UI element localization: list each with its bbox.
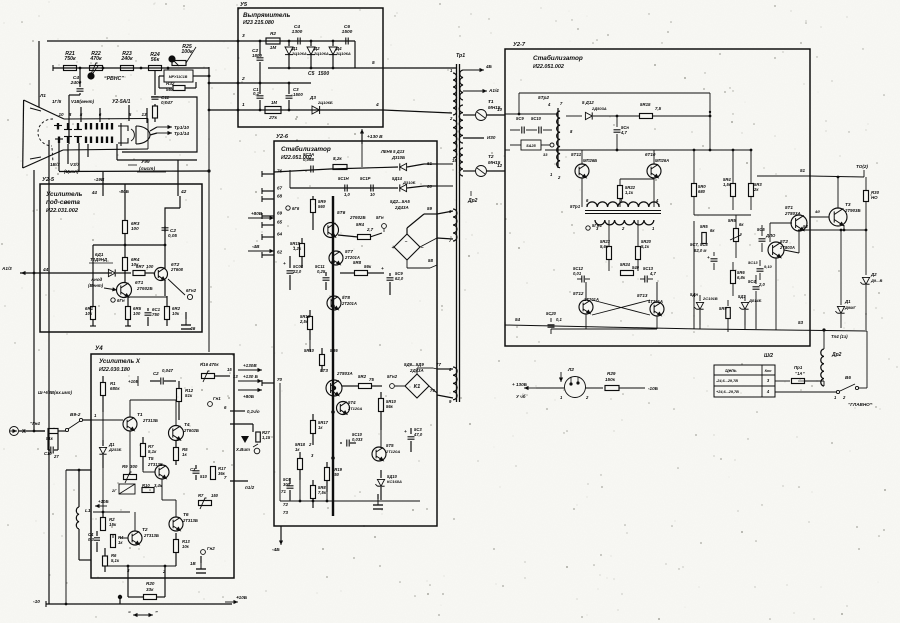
svg-text:И22.030.180: И22.030.180 <box>99 367 130 373</box>
resistor 5R2 75 <box>359 384 372 389</box>
U2-6 bottom wires <box>280 500 420 502</box>
svg-text:750: 750 <box>332 472 340 477</box>
svg-text:+130В: +130В <box>243 363 257 368</box>
svg-text:-4В: -4В <box>252 244 260 249</box>
transformer Tr1 core <box>456 64 458 402</box>
svg-text:L1: L1 <box>85 508 91 514</box>
svg-text:R9: R9 <box>122 464 128 469</box>
svg-text:КС168А: КС168А <box>387 479 402 484</box>
lamp L2 <box>565 377 586 398</box>
pin Gn2 <box>201 550 206 555</box>
svg-text:-19В: -19В <box>94 177 105 183</box>
transistor 5T3 2T803A <box>326 380 342 396</box>
resistor 5R4 2.7 <box>358 235 371 240</box>
svg-text:2Т803А: 2Т803А <box>784 211 801 216</box>
svg-text:5Т8: 5Т8 <box>342 295 350 300</box>
pin 6Gn6 <box>286 206 290 210</box>
svg-text:В9-2: В9-2 <box>70 412 81 418</box>
svg-text:12: 12 <box>497 163 503 168</box>
wire winding3 taps <box>437 211 453 214</box>
svg-text:510: 510 <box>200 474 208 479</box>
wire y171 to stub 42 <box>59 170 209 173</box>
svg-text:3: 3 <box>242 33 245 39</box>
bus vertical x209 <box>208 67 210 110</box>
arrow Tr1/14 <box>157 132 172 134</box>
U4 wiring T1 column <box>102 412 104 440</box>
svg-text:К1: К1 <box>414 384 421 390</box>
svg-text:5Гн2: 5Гн2 <box>387 374 398 379</box>
U7 mid column vertical <box>693 221 695 329</box>
svg-text:5R4: 5R4 <box>356 222 365 227</box>
svg-text:1М: 1М <box>270 45 277 50</box>
pin 7 wire p1/2 <box>230 480 248 482</box>
svg-text:5Гн4: 5Гн4 <box>592 223 602 228</box>
svg-text:64: 64 <box>277 232 283 237</box>
svg-text:10к: 10к <box>182 544 190 549</box>
multivibrator bottom wire <box>585 314 587 329</box>
stub -19V <box>102 172 104 196</box>
svg-text:НО: НО <box>871 195 878 200</box>
svg-text:R10: R10 <box>142 483 150 488</box>
resistor 6R2 10k <box>166 296 168 306</box>
bottom resistors row <box>92 273 94 306</box>
svg-text:44: 44 <box>91 190 98 195</box>
svg-text:0,3: 0,3 <box>88 537 94 542</box>
wire 5R22 to mid <box>620 178 654 180</box>
resistor 5R15 7.5 <box>640 114 653 119</box>
svg-text:15: 15 <box>227 367 232 372</box>
U7 multivib collectors <box>585 282 587 300</box>
diode 5D12 <box>566 115 582 117</box>
resistor 6R7 100 <box>133 271 145 276</box>
resistor 5R6b <box>727 300 729 306</box>
stub 42 wire inside <box>179 196 181 208</box>
svg-text:5С7, 5С8: 5С7, 5С8 <box>690 242 708 247</box>
svg-text:Гн1: Гн1 <box>213 396 221 401</box>
U7 zener bottoms <box>699 310 701 329</box>
diode D2 <box>310 41 312 46</box>
svg-text:-10Б: -10Б <box>648 386 659 391</box>
capacitor C6 1500 <box>345 38 347 45</box>
resistor 5R16 <box>309 310 311 316</box>
transistor 5T2 2T803A <box>768 242 784 258</box>
svg-text:13: 13 <box>233 374 238 379</box>
transistor T1 2T313B <box>123 417 137 431</box>
svg-text:+10Б: +10Б <box>236 595 248 600</box>
cross coupling X <box>592 300 650 315</box>
svg-text:5Д14: 5Д14 <box>392 176 403 181</box>
svg-text:2Т120А: 2Т120А <box>385 449 400 454</box>
resistor 5R10 56k <box>380 392 382 398</box>
svg-text:2,7: 2,7 <box>366 227 374 232</box>
zener 5D10 KS168A <box>380 470 382 478</box>
svg-text:5А25: 5А25 <box>526 143 536 148</box>
pot knob R22 <box>87 72 94 79</box>
svg-text:0,047: 0,047 <box>161 100 173 105</box>
svg-text:МП26Б: МП26Б <box>583 158 597 163</box>
svg-text:240к: 240к <box>120 56 133 62</box>
svg-text:”: ” <box>155 611 158 617</box>
capacitor 5C5 <box>761 225 763 236</box>
transistor T3 2T903B <box>829 208 847 226</box>
svg-text:4Б: 4Б <box>485 64 493 69</box>
svg-text:+: + <box>404 430 407 435</box>
svg-text:5С1Р: 5С1Р <box>360 176 371 181</box>
module MRU11S1V <box>164 70 193 82</box>
svg-text:750: 750 <box>152 312 160 317</box>
resistor R20 33k <box>118 595 122 599</box>
svg-text:С3: С3 <box>190 467 196 472</box>
svg-text:Тр1/14: Тр1/14 <box>174 131 189 137</box>
svg-text:И23 215.080: И23 215.080 <box>243 20 274 26</box>
svg-text:7,5к: 7,5к <box>318 490 327 495</box>
svg-text:-4Б: -4Б <box>272 547 280 553</box>
svg-text:+: + <box>283 262 286 267</box>
svg-text:И22.031.002: И22.031.002 <box>46 208 79 214</box>
svg-text:Др2: Др2 <box>831 352 842 358</box>
svg-text:27: 27 <box>53 454 59 459</box>
svg-text:Л1: Л1 <box>39 93 46 99</box>
U4 wire L1 drop <box>65 470 67 604</box>
resistor small above 5T3 <box>320 355 325 366</box>
capacitor 5C12 0.01 <box>581 276 583 283</box>
svg-text:1В: 1В <box>190 561 196 566</box>
pot R9 300 <box>124 475 137 480</box>
wire TO2 top <box>810 176 864 177</box>
svg-text:под-света: под-света <box>46 198 80 206</box>
U7 bus y150 full <box>617 149 694 151</box>
svg-text:5: 5 <box>372 60 375 66</box>
wire bus to U5 pin2 <box>209 82 238 84</box>
wire bus to U5 pin1 <box>209 109 238 111</box>
svg-text:58: 58 <box>428 258 433 263</box>
resistor 5R9 560 <box>312 196 314 200</box>
svg-text:5Д2...5А5: 5Д2...5А5 <box>390 199 410 204</box>
svg-text:1500: 1500 <box>342 29 353 35</box>
svg-text:5R8: 5R8 <box>353 260 362 265</box>
svg-text:560: 560 <box>318 204 326 209</box>
capacitor 5C8 22.0 <box>289 256 291 268</box>
svg-text:2Т313Б: 2Т313Б <box>142 418 158 423</box>
U2-6 misc columns <box>380 430 382 448</box>
U4 wiring T1-T4 link <box>129 400 131 417</box>
capacitor 5C13 4.7 <box>644 276 646 283</box>
ground cap 46 <box>181 324 191 326</box>
svg-text:65: 65 <box>277 220 283 225</box>
svg-text:46: 46 <box>189 326 196 332</box>
svg-text:Тр1/10: Тр1/10 <box>174 125 189 131</box>
svg-text:+: + <box>391 245 394 251</box>
capacitor C2 1800 <box>259 41 261 56</box>
svg-text:Усилитель: Усилитель <box>46 191 83 198</box>
wire lamp T2 to U7 pin12 <box>487 170 505 172</box>
svg-text:Ш-Ч/ЗВ(вх.имп): Ш-Ч/ЗВ(вх.имп) <box>38 390 72 395</box>
bus x209 down <box>208 110 210 352</box>
pin 6Gn1 <box>111 298 115 302</box>
U7 pin 10 wire <box>505 113 558 115</box>
svg-text:-10: -10 <box>33 599 40 605</box>
capacitor C11 0.047 with resistor <box>154 71 156 95</box>
capacitor 5C12b 2.0 <box>755 275 757 284</box>
svg-text:1,15: 1,15 <box>262 435 271 440</box>
svg-text:Цепь: Цепь <box>725 368 737 373</box>
wire L1 top <box>66 469 91 471</box>
resistor R6 5.1k <box>104 548 106 556</box>
lamp T1 MN15 <box>463 114 475 116</box>
svg-text:5R5: 5R5 <box>728 218 736 223</box>
U5 wire row pin1 <box>238 109 383 111</box>
middle resistor 680 <box>693 150 695 183</box>
wire 44 input row <box>20 272 112 274</box>
Tr1 right winding mid <box>459 105 463 143</box>
svg-text:100: 100 <box>131 226 139 231</box>
resistor R2 15k <box>102 512 104 518</box>
svg-text:100: 100 <box>146 264 154 269</box>
svg-text:V1В(вент): V1В(вент) <box>71 99 95 104</box>
CRT pins below <box>58 143 60 171</box>
svg-text:~: ~ <box>405 239 408 244</box>
svg-text:4: 4 <box>375 102 379 108</box>
svg-text:0,25: 0,25 <box>317 269 326 274</box>
svg-text:2Д43А: 2Д43А <box>409 368 424 373</box>
svg-text:4,7: 4,7 <box>620 130 627 135</box>
ground in U4 <box>196 568 206 570</box>
resistor R7 5.1k <box>142 437 144 444</box>
resistor 5R20 5.1k <box>637 220 639 246</box>
svg-text:2Д503А: 2Д503А <box>591 106 607 111</box>
wire connector to rail <box>34 430 45 432</box>
diode D3 <box>312 106 320 114</box>
svg-text:4д: 4д <box>814 209 820 214</box>
stub 42 into U2-5 <box>177 160 179 196</box>
svg-text:73: 73 <box>283 510 288 515</box>
svg-text:2Ц106Б: 2Ц106Б <box>317 100 333 105</box>
svg-text:10к: 10к <box>172 311 180 316</box>
svg-text:2Ц106А: 2Ц106А <box>335 51 351 56</box>
svg-text:2Т201А: 2Т201А <box>341 301 357 306</box>
transistor T2 2T313B <box>128 531 142 545</box>
capacitor 5C6 300 <box>289 478 291 484</box>
bottom rail -10V <box>46 603 232 605</box>
capacitor 5C9 62.0 <box>389 273 391 276</box>
svg-text:300: 300 <box>283 482 291 487</box>
svg-text:Ш/2: Ш/2 <box>764 353 773 359</box>
svg-text:750к: 750к <box>64 56 76 62</box>
wire 52 emitter rail <box>798 229 866 231</box>
svg-text:Д814Б: Д814Б <box>748 298 762 303</box>
svg-text:У2-7: У2-7 <box>513 42 526 48</box>
svg-text:5С5: 5С5 <box>757 227 765 232</box>
svg-text:Анод: Анод <box>90 277 103 282</box>
svg-text:А1/3: А1/3 <box>1 266 12 271</box>
capacitor 5C10 0.033 <box>346 440 348 447</box>
transistor 6T1 2T602B <box>117 283 132 298</box>
svg-text:5R5: 5R5 <box>700 224 708 229</box>
tap A1/4 <box>463 90 487 92</box>
svg-text:5R10: 5R10 <box>304 348 315 353</box>
svg-text:А1/4: А1/4 <box>488 88 499 93</box>
pot R16 <box>202 374 215 379</box>
U2-6 left pins lower <box>262 382 274 384</box>
svg-text:R20: R20 <box>146 581 155 586</box>
diode D4 <box>332 41 334 46</box>
svg-text:Д3: Д3 <box>309 95 316 100</box>
svg-text:5Гн: 5Гн <box>376 215 384 220</box>
svg-text:77: 77 <box>436 362 441 367</box>
resistor 5R8b 7.5k <box>312 480 314 486</box>
transistor 5T1 2T803A <box>791 215 807 231</box>
U7 internal wires right <box>757 175 810 177</box>
wire top rail inside <box>274 167 398 172</box>
resistor R12 51k <box>178 381 180 388</box>
svg-text:2Т602Б: 2Т602Б <box>183 428 199 433</box>
transistor 6T2 <box>155 268 168 281</box>
svg-text:7,5: 7,5 <box>655 106 662 111</box>
svg-text:МРУ11С1В: МРУ11С1В <box>169 75 188 79</box>
transistor 5T8 2T201A <box>327 296 341 310</box>
capacitor 5C11 0.25 <box>325 272 327 276</box>
input connector X <box>10 427 19 436</box>
svg-text:6,8к: 6,8к <box>737 275 746 280</box>
resistor 5R19 750 <box>326 462 328 468</box>
wire drop to CRT funnel <box>38 41 40 108</box>
transistor 5T7 2T201A <box>329 251 343 265</box>
svg-text:5Т4: 5Т4 <box>348 400 356 405</box>
capacitor C2 0.047 <box>160 378 162 385</box>
U5 wire row pin2 <box>238 82 311 84</box>
svg-text:2Т313Б: 2Т313Б <box>143 533 159 538</box>
capacitor C4 2400 <box>79 68 81 87</box>
transistor 5T5 2T120A <box>372 447 386 461</box>
svg-text:44: 44 <box>42 267 49 273</box>
svg-text:4,7: 4,7 <box>649 271 656 276</box>
wire box around CRT bias <box>122 97 197 152</box>
capacitor 50n 4.7 <box>616 116 618 127</box>
svg-text:Пр1: Пр1 <box>794 365 803 370</box>
rail x49 lower <box>48 332 50 604</box>
svg-text:2Д43А: 2Д43А <box>394 205 409 210</box>
block U5 Vypryamitel <box>238 8 383 127</box>
svg-text:54: 54 <box>515 317 521 322</box>
fuse Pr1 <box>775 380 790 382</box>
block U2-6 Stabilizator <box>274 141 437 526</box>
transistor 5T12 2T201A <box>579 300 593 314</box>
svg-text:71: 71 <box>281 489 286 494</box>
arrow -4V into U2-6 <box>248 250 274 252</box>
svg-text:5 Д12: 5 Д12 <box>582 100 594 105</box>
svg-text:ДПО: ДПО <box>765 233 776 238</box>
svg-text:1300: 1300 <box>292 29 303 35</box>
resistor R17 36k <box>211 467 216 480</box>
U2-6 bridge stubs <box>395 385 405 387</box>
svg-text:0,1: 0,1 <box>556 317 562 322</box>
diode D1 <box>288 41 290 46</box>
stub -4B bottom <box>280 526 282 543</box>
capacitor C1 0.1 <box>259 83 261 94</box>
svg-text:2Т602Б: 2Т602Б <box>349 215 366 220</box>
svg-text:5Тр2: 5Тр2 <box>538 95 549 101</box>
svg-text:150к: 150к <box>605 377 616 382</box>
svg-text:5,1к: 5,1к <box>641 244 650 249</box>
svg-text:2Т313Б: 2Т313Б <box>182 518 198 523</box>
svg-text:1,1к: 1,1к <box>625 190 634 195</box>
U4 wiring T2 <box>134 512 136 531</box>
Tr1 left winding 2 <box>453 120 457 158</box>
CRT funnel <box>24 100 64 119</box>
svg-text:5Т12: 5Т12 <box>573 291 584 296</box>
svg-text:У2-5А/1: У2-5А/1 <box>112 99 131 105</box>
resistor 6R4 10k <box>123 258 128 271</box>
svg-text:5Т1: 5Т1 <box>785 205 793 210</box>
svg-text:8,2к: 8,2к <box>333 156 342 161</box>
block U7 Stabilizator <box>505 49 810 346</box>
svg-text:5Д6...5Д9: 5Д6...5Д9 <box>404 362 424 367</box>
resistor 6R3 100 <box>124 196 126 220</box>
svg-text:“: “ <box>128 611 131 617</box>
resistor 5R8 56k <box>355 271 368 276</box>
svg-text:0,1ч/о: 0,1ч/о <box>247 409 260 414</box>
svg-text:“Гн4: “Гн4 <box>30 421 40 426</box>
svg-text:62,0 м: 62,0 м <box>694 248 707 253</box>
svg-text:Д9МГ: Д9МГ <box>844 305 856 310</box>
resistor R24 56k <box>149 66 162 71</box>
svg-text:5Т6: 5Т6 <box>337 210 346 216</box>
pot R7b <box>199 501 212 506</box>
svg-text:1М: 1М <box>271 100 277 105</box>
block U4 Usilitel X <box>91 354 234 578</box>
svg-text:2к: 2к <box>753 187 759 192</box>
svg-text:10: 10 <box>497 107 503 112</box>
svg-text:72: 72 <box>283 502 288 507</box>
svg-text:22,0: 22,0 <box>292 269 302 274</box>
svg-text:300: 300 <box>130 464 138 469</box>
svg-text:2Т803А: 2Т803А <box>779 245 795 250</box>
svg-text:5С9: 5С9 <box>516 116 524 121</box>
svg-text:И30: И30 <box>487 135 496 140</box>
wire 5Tr1 ends <box>581 178 583 207</box>
wire T3 base from U7 <box>810 216 829 218</box>
diode 5D14 <box>400 184 407 191</box>
resistor R30 110 <box>865 177 867 190</box>
svg-text:52: 52 <box>803 224 808 229</box>
connector circle <box>254 448 260 454</box>
svg-text:1500: 1500 <box>293 92 303 97</box>
svg-text:1: 1 <box>242 102 245 108</box>
diode D1 D253B <box>102 440 104 446</box>
svg-text:33: 33 <box>543 152 548 157</box>
svg-text:5Т11: 5Т11 <box>571 152 582 157</box>
svg-text:5R2: 5R2 <box>358 374 367 379</box>
svg-text:Д1: Д1 <box>844 299 851 304</box>
svg-text:5Тр1: 5Тр1 <box>570 204 581 209</box>
svg-text:5,1к: 5,1к <box>148 449 157 454</box>
svg-text:6Гн: 6Гн <box>117 298 125 303</box>
svg-text:С2: С2 <box>153 371 159 376</box>
svg-text:2Ц106А: 2Ц106А <box>313 51 329 56</box>
svg-text:62,0: 62,0 <box>395 276 404 281</box>
resistor R32 56k <box>159 75 164 77</box>
arrow Tr1/10 <box>157 126 172 128</box>
U4 wiring mid rail <box>93 511 130 513</box>
zener 5D11 <box>699 295 701 301</box>
svg-text:Х.Вит: Х.Вит <box>235 447 250 452</box>
wire L1 bottom into block <box>79 559 91 561</box>
wire +10B left <box>95 505 107 507</box>
wire top net to U5 pin3 <box>47 40 238 42</box>
svg-text:+10Б: +10Б <box>128 379 139 384</box>
pin 5Gn2 <box>390 384 395 389</box>
diode D2 <box>865 230 867 275</box>
